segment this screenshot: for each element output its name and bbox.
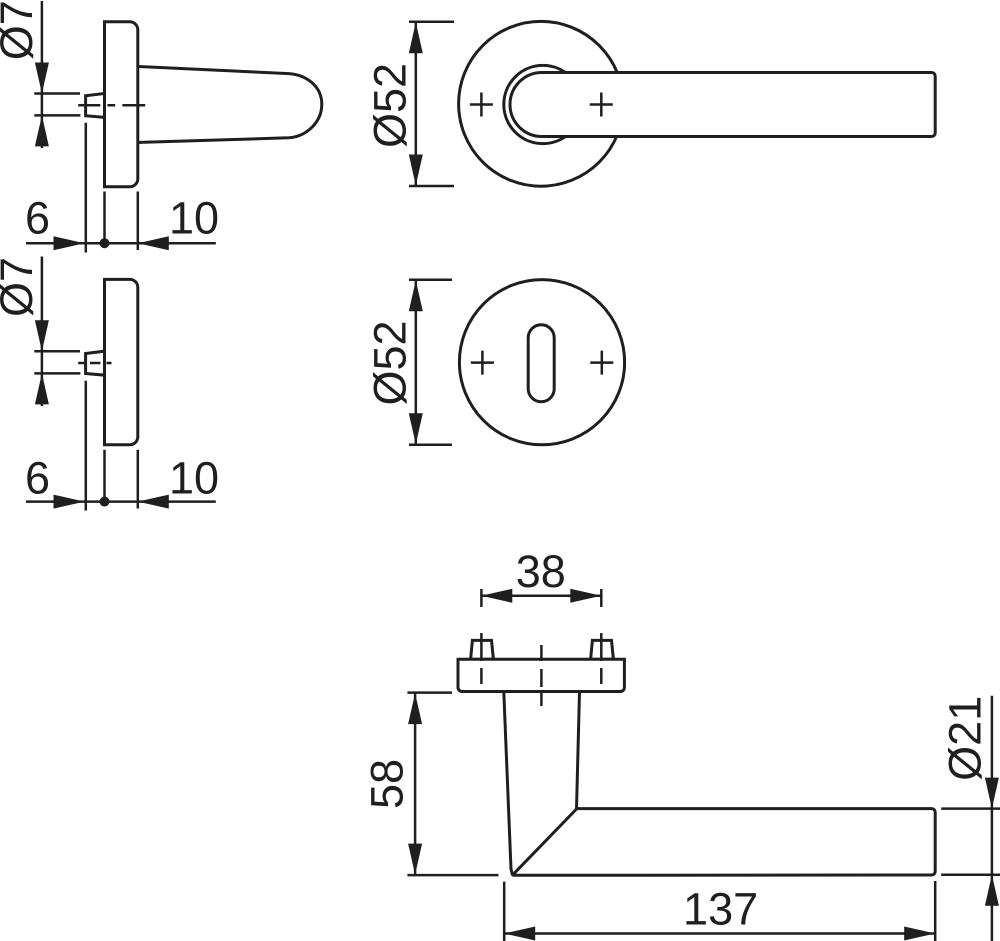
dimension label 6 (view 2) (25, 453, 50, 504)
rose plate (side) (105, 22, 138, 187)
rose plate (top view, section) (458, 659, 624, 691)
central axis centerline (top view) (540, 645, 543, 706)
svg-text:137: 137 (683, 884, 758, 935)
screw position cross left (view 3) (470, 93, 493, 117)
dimension Ø7 (view 2): label (0, 257, 42, 317)
fixing screw right (top view) (591, 640, 614, 659)
screw centerline left (top view) (480, 589, 483, 684)
dimension 137: dimension line (504, 932, 935, 935)
dimension 58: dimension line (414, 693, 417, 876)
screw position cross right (view 4) (590, 351, 613, 375)
rose plate (view 2) (105, 279, 138, 444)
fixing screw left (top view) (471, 640, 494, 659)
lever bar (front) (510, 73, 935, 137)
dimension Ø21: label (940, 696, 991, 781)
dimension Ø52 (view 3): arrowheads (409, 22, 423, 185)
svg-text:6: 6 (25, 453, 50, 504)
dimension 137: label (683, 884, 758, 935)
dimension 58: label (361, 759, 412, 809)
svg-text:10: 10 (169, 453, 219, 504)
dimension Ø21: dimension line (991, 696, 994, 941)
dimension Ø7 (view 1): extension lines (34, 94, 80, 116)
dimensions 6 and 10 (view 2): extension lines (86, 381, 138, 511)
centerline of spindle (view 2) (78, 362, 111, 365)
centerline of spindle (view 1) (78, 104, 145, 107)
svg-text:38: 38 (516, 546, 566, 597)
dimension label 10 (view 2) (169, 453, 219, 504)
rose disc (front) (459, 21, 624, 186)
dimension Ø7 (view 1): dimension line (41, 1, 44, 148)
dimension 137: extension lines (504, 881, 935, 941)
dimension label 6 (view 1) (25, 193, 50, 244)
grip profile (side) (136, 66, 322, 142)
dimensions 6 and 10 (view 1): extension lines (86, 123, 138, 253)
dimension 38: arrowheads (481, 589, 601, 603)
dimension Ø52 (view 3): label (365, 63, 416, 148)
screw position cross left (view 4) (471, 351, 494, 375)
lever (top view) (512, 809, 935, 876)
keyhole slot (528, 325, 554, 402)
dimensions 6 and 10 (view 2): arrowheads and dot (54, 495, 169, 509)
dimension 38: dimension line (481, 595, 601, 598)
dimension label 10 (view 1) (169, 193, 219, 244)
miter joint line (512, 809, 576, 875)
dimension Ø21: arrowheads (985, 778, 999, 906)
dimension Ø7 (view 1): label (0, 0, 42, 60)
spindle boss (view 2) (86, 351, 106, 375)
dimension Ø21: extension lines (941, 809, 1000, 875)
dimension Ø52 (view 3): dimension line (415, 22, 418, 186)
screw position cross right (view 3) (590, 93, 613, 117)
svg-text:Ø52: Ø52 (365, 63, 416, 148)
svg-text:Ø7: Ø7 (0, 257, 42, 317)
dimension 38: label (516, 546, 566, 597)
svg-text:Ø21: Ø21 (940, 696, 991, 781)
dimension Ø7 (view 1): arrowheads (35, 63, 49, 147)
screw centerline right (top view) (600, 589, 603, 684)
dimension Ø52 (view 4): extension lines (409, 280, 452, 445)
dimensions 6 and 10 (view 1): arrowheads and dot (54, 236, 169, 250)
svg-text:Ø52: Ø52 (365, 320, 416, 405)
dimension Ø52 (view 4): dimension line (415, 280, 418, 445)
neck of handle (top view) (504, 692, 580, 876)
key rose disc (front) (459, 280, 624, 445)
dimension 58: arrowheads (408, 693, 422, 875)
dimension Ø7 (view 2): extension lines (34, 351, 80, 373)
dimension Ø52 (view 4): arrowheads (409, 280, 423, 444)
dimension 137: arrowheads (504, 927, 935, 941)
svg-text:10: 10 (169, 193, 219, 244)
spindle boss (side) (86, 93, 106, 117)
svg-text:58: 58 (361, 759, 412, 809)
dimension Ø7 (view 2): dimension line (41, 257, 44, 407)
dimensions 6 and 10 (view 1): dimension line (26, 242, 216, 245)
dimension Ø52 (view 4): label (365, 320, 416, 405)
dimension 58: extension lines (407, 693, 498, 876)
dimension Ø7 (view 2): arrowheads (35, 320, 49, 404)
dimensions 6 and 10 (view 2): dimension line (26, 500, 216, 503)
neck base circle (504, 65, 582, 143)
svg-text:6: 6 (25, 193, 50, 244)
dimension Ø52 (view 3): extension lines (409, 22, 454, 186)
svg-text:Ø7: Ø7 (0, 0, 42, 60)
